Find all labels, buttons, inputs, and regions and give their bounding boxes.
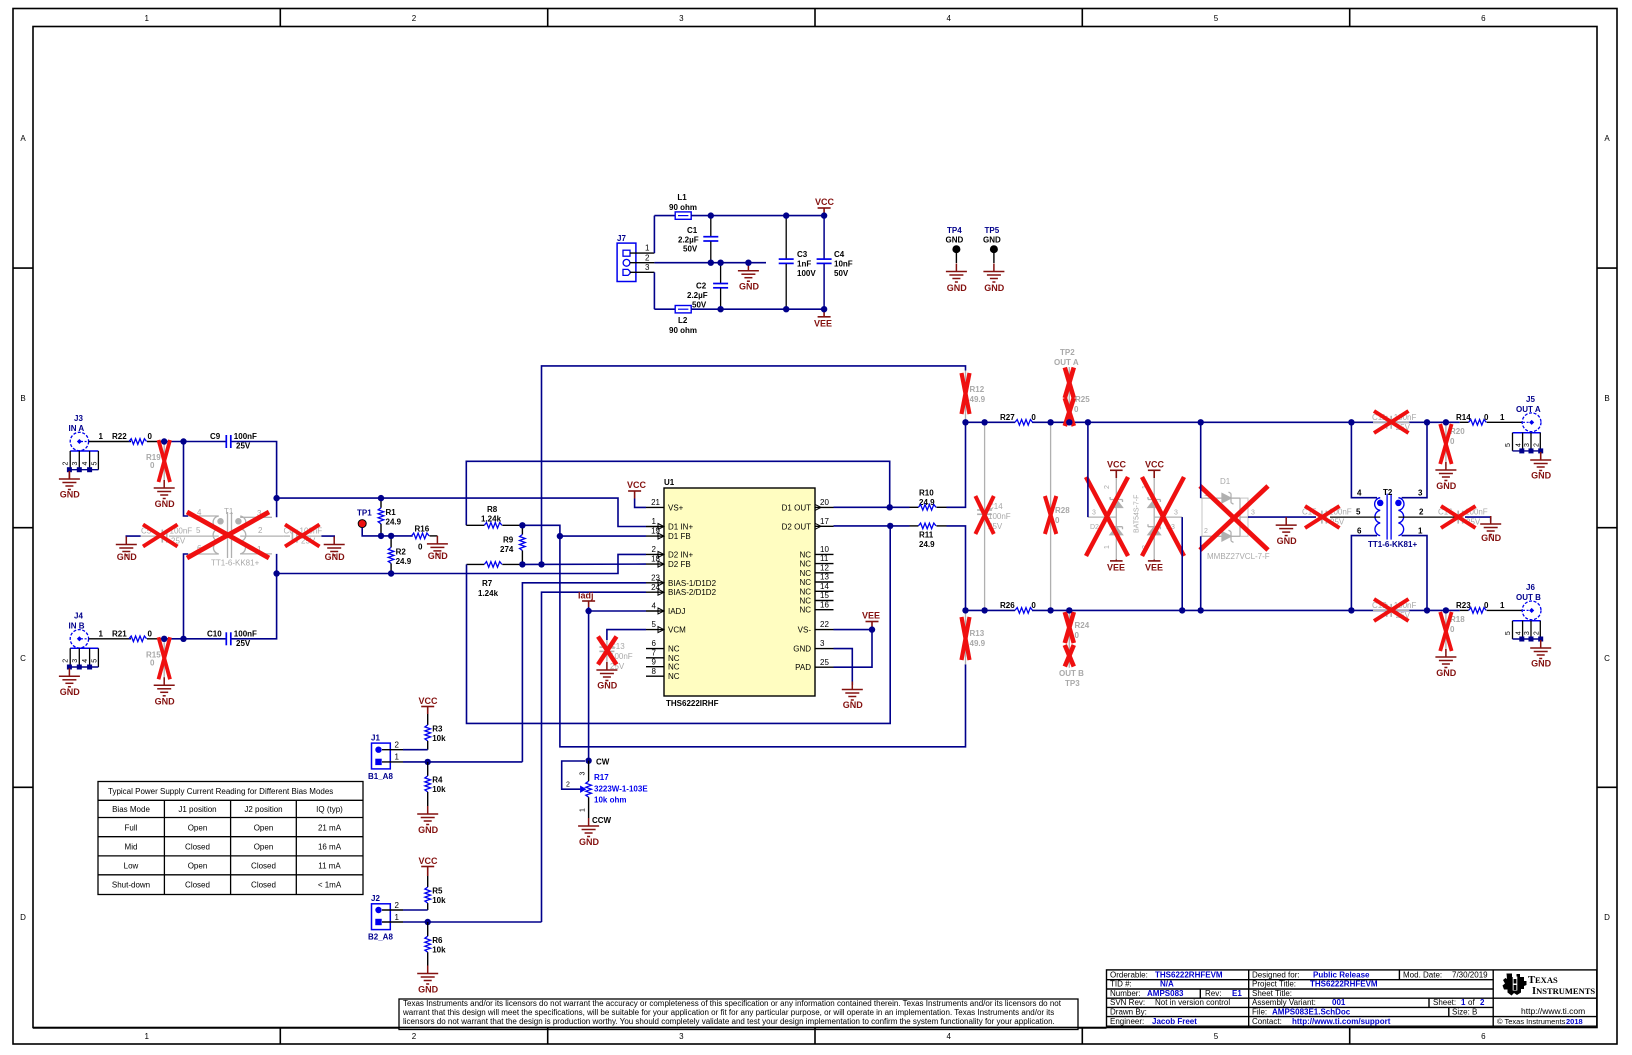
svg-text:R4: R4	[432, 776, 443, 785]
svg-text:21 mA: 21 mA	[318, 824, 342, 833]
wire D1 OUT to R10	[834, 506, 910, 508]
svg-text:D1: D1	[1220, 477, 1231, 486]
resistor R16	[412, 525, 438, 552]
svg-text:3: 3	[679, 14, 684, 23]
svg-text:90 ohm: 90 ohm	[669, 203, 697, 212]
svg-text:Designed for:: Designed for:	[1252, 970, 1300, 979]
svg-text:2: 2	[258, 526, 263, 535]
resistor R23	[1456, 601, 1522, 613]
capacitor C12 (DNP) series on rail B	[1372, 599, 1416, 621]
diode D3 BAT54S (DNP)	[1142, 460, 1184, 573]
svg-text:2.2µF: 2.2µF	[678, 236, 699, 245]
svg-text:1: 1	[1104, 545, 1111, 549]
ground at power mid rail	[738, 263, 760, 292]
capacitor C4	[817, 216, 853, 310]
svg-text:D2 FB: D2 FB	[668, 560, 691, 569]
svg-text:R1: R1	[386, 508, 397, 517]
svg-text:2018: 2018	[1566, 1017, 1583, 1026]
TI logo	[1497, 974, 1595, 1026]
red X over R19	[159, 440, 171, 482]
test point TP2 OUT A (DNP)	[1054, 348, 1079, 398]
svg-text:TP4: TP4	[947, 226, 962, 235]
resistor R2	[388, 536, 411, 574]
svg-text:Project Title:: Project Title:	[1252, 980, 1296, 989]
svg-text:1: 1	[144, 14, 149, 23]
svg-text:J1: J1	[371, 734, 380, 743]
wire R8 node to D1 FB column	[522, 525, 560, 536]
svg-text:IQ (typ): IQ (typ)	[316, 805, 343, 814]
svg-text:GND: GND	[1531, 471, 1552, 481]
resistor R8	[466, 505, 522, 528]
svg-text:5: 5	[1505, 631, 1512, 635]
ground at C13	[596, 662, 617, 691]
svg-text:Shut-down: Shut-down	[112, 881, 150, 890]
svg-text:GND: GND	[155, 499, 176, 509]
resistor R11	[910, 523, 947, 549]
svg-text:NC: NC	[799, 606, 811, 615]
svg-text:3: 3	[1418, 489, 1423, 498]
svg-text:D2 IN+: D2 IN+	[668, 550, 693, 559]
output rail A	[966, 421, 1460, 423]
junction	[557, 533, 563, 539]
svg-text:23: 23	[651, 573, 660, 582]
svg-text:16: 16	[820, 600, 829, 609]
svg-text:0: 0	[1075, 631, 1080, 640]
resistor R12 (DNP)	[962, 371, 986, 423]
svg-text:GND: GND	[946, 236, 964, 245]
resistor R9	[500, 525, 525, 564]
svg-text:24.9: 24.9	[919, 540, 935, 549]
op-amp U1 THS6222IRHF body	[664, 478, 815, 708]
svg-text:14: 14	[820, 582, 829, 591]
svg-text:R17: R17	[594, 773, 609, 782]
junction	[783, 306, 789, 312]
svg-text:VS+: VS+	[668, 503, 684, 512]
svg-text:2: 2	[395, 741, 400, 750]
svg-text:R8: R8	[487, 505, 498, 514]
svg-text:GND: GND	[579, 837, 600, 847]
junction	[425, 759, 431, 765]
svg-text:Open: Open	[254, 843, 274, 852]
VEE at U1	[862, 611, 880, 633]
svg-text:R16: R16	[415, 525, 430, 534]
svg-text:OUT A: OUT A	[1054, 358, 1079, 367]
svg-text:VCC: VCC	[1107, 460, 1127, 470]
red X over R15	[159, 637, 171, 679]
connector J1	[368, 734, 403, 782]
svg-text:IN A: IN A	[69, 424, 85, 433]
svg-text:< 1mA: < 1mA	[318, 881, 342, 890]
ground at D1 pin3	[1276, 517, 1297, 546]
svg-text:warrant that this design will: warrant that this design will meet the s…	[402, 1008, 1054, 1017]
ground at R18	[1435, 649, 1456, 678]
svg-text:PAD: PAD	[795, 663, 811, 672]
resistor R4	[425, 762, 446, 806]
svg-text:5: 5	[196, 526, 201, 535]
ground at J6 shell	[1530, 640, 1551, 669]
svg-text:© Texas Instruments: © Texas Instruments	[1497, 1017, 1566, 1026]
svg-text:VCC: VCC	[419, 696, 439, 706]
resistor R19 (DNP)	[146, 440, 170, 484]
svg-text:R9: R9	[503, 536, 514, 545]
svg-text:R2: R2	[396, 548, 407, 557]
svg-text:TID #:: TID #:	[1110, 980, 1132, 989]
svg-text:0: 0	[1031, 413, 1036, 422]
svg-text:3223W-1-103E: 3223W-1-103E	[594, 785, 648, 794]
junction	[821, 306, 827, 312]
svg-text:5: 5	[1505, 443, 1512, 447]
junction	[745, 260, 751, 266]
ground at C6	[324, 537, 345, 563]
svg-text:7: 7	[652, 648, 657, 657]
ground at R19	[154, 480, 175, 509]
resistor R18 (DNP)	[1440, 610, 1465, 653]
capacitor C16 (DNP) at T2 pin2	[1438, 506, 1488, 528]
ground at C5	[116, 537, 137, 563]
svg-text:9: 9	[652, 657, 657, 666]
junction	[1179, 607, 1185, 613]
capacitor C13 (DNP)	[598, 637, 633, 672]
svg-text:D2 OUT: D2 OUT	[782, 522, 811, 531]
ground at J5 shell	[1530, 452, 1551, 481]
ground at TP5	[983, 264, 1004, 294]
svg-text:Number:: Number:	[1110, 989, 1141, 998]
svg-text:R14: R14	[1456, 413, 1471, 422]
svg-text:NC: NC	[668, 645, 680, 654]
resistor R10	[910, 489, 947, 511]
svg-text:100nF: 100nF	[234, 629, 257, 638]
diode D1 MMBZ27VCL-7-F (DNP)	[1200, 477, 1270, 561]
svg-text:BIAS-2/D1D2: BIAS-2/D1D2	[668, 588, 717, 597]
resistor R20 (DNP)	[1440, 422, 1465, 466]
wire J4 pin1 to R21	[89, 638, 131, 640]
svg-text:4: 4	[652, 602, 657, 611]
title block	[1107, 970, 1597, 1026]
svg-text:C9: C9	[210, 432, 221, 441]
junction	[519, 561, 525, 567]
inductor L2	[669, 306, 697, 336]
ground at C16	[1480, 516, 1501, 543]
svg-text:10k ohm: 10k ohm	[594, 796, 626, 805]
junction	[1066, 607, 1072, 613]
svg-text:2: 2	[1204, 528, 1208, 535]
svg-text:GND: GND	[1436, 481, 1457, 491]
svg-text:4: 4	[82, 462, 89, 466]
svg-text:3: 3	[1524, 443, 1531, 447]
svg-text:0: 0	[1055, 516, 1060, 525]
border row labels	[20, 134, 1610, 922]
svg-text:AMPS083E1.SchDoc: AMPS083E1.SchDoc	[1272, 1008, 1351, 1017]
svg-text:Not in version control: Not in version control	[1155, 998, 1230, 1007]
ground at R15	[154, 677, 175, 706]
svg-text:3: 3	[679, 1032, 684, 1041]
svg-text:Public Release: Public Release	[1313, 970, 1370, 979]
svg-text:B1_A8: B1_A8	[368, 772, 393, 781]
svg-text:IADJ: IADJ	[668, 607, 685, 616]
svg-text:TT1-6-KK81+: TT1-6-KK81+	[1368, 540, 1417, 549]
junction	[1424, 607, 1430, 613]
svg-text:GND: GND	[947, 283, 968, 293]
ground at R6	[417, 966, 438, 995]
capacitor C2	[687, 263, 728, 310]
test point TP4	[946, 226, 964, 263]
wire VS- PAD to VEE	[834, 630, 873, 668]
svg-text:0: 0	[150, 461, 155, 470]
svg-text:Bias Mode: Bias Mode	[112, 805, 150, 814]
svg-text:R25: R25	[1075, 395, 1090, 404]
svg-text:C10: C10	[207, 629, 222, 638]
svg-text:10nF: 10nF	[834, 260, 853, 269]
capacitor C10	[207, 629, 257, 648]
junction	[388, 570, 394, 576]
junction	[1198, 607, 1204, 613]
svg-text:6: 6	[1357, 527, 1362, 536]
svg-text:10k: 10k	[432, 946, 446, 955]
red X over T1	[187, 512, 269, 558]
junction	[962, 607, 968, 613]
svg-text:Iadj: Iadj	[578, 591, 594, 601]
svg-text:25V: 25V	[236, 442, 251, 451]
svg-text:0: 0	[1484, 413, 1489, 422]
svg-text:25V: 25V	[236, 639, 251, 648]
svg-text:T2: T2	[1383, 488, 1393, 497]
wire C16 to ground	[1465, 517, 1491, 521]
svg-text:BAT54S-7-F: BAT54S-7-F	[1133, 495, 1140, 533]
wire rail B to T2 pin1	[1402, 536, 1427, 611]
svg-text:J3: J3	[74, 414, 83, 423]
capacitor C6 (DNP) at T1 pin2	[283, 525, 322, 547]
svg-text:CCW: CCW	[592, 816, 612, 825]
svg-text:0: 0	[150, 658, 155, 667]
svg-text:10k: 10k	[432, 785, 446, 794]
svg-text:21: 21	[651, 498, 660, 507]
wire rail A to D2 pin3	[1087, 422, 1089, 517]
wire T1 pin4 from C9 node	[184, 442, 189, 517]
svg-text:4: 4	[946, 14, 951, 23]
svg-text:GND: GND	[597, 681, 618, 691]
svg-text:TP1: TP1	[357, 509, 372, 518]
svg-text:2: 2	[395, 901, 400, 910]
svg-text:49.9: 49.9	[970, 639, 986, 648]
wire J7 pin3 to L2	[653, 272, 655, 309]
svg-text:Engineer:: Engineer:	[1110, 1017, 1144, 1026]
VCC at R5	[419, 856, 439, 876]
svg-text:6: 6	[652, 639, 657, 648]
junction	[1443, 419, 1449, 425]
svg-text:B2_A8: B2_A8	[368, 933, 393, 942]
U1 right pin stubs	[815, 507, 834, 667]
svg-text:Sheet:: Sheet:	[1433, 998, 1456, 1007]
svg-text:NC: NC	[799, 569, 811, 578]
svg-text:2: 2	[652, 545, 657, 554]
svg-text:NC: NC	[799, 597, 811, 606]
svg-text:Closed: Closed	[185, 881, 210, 890]
resistor R28 (DNP)	[1045, 422, 1070, 610]
svg-text:Orderable:: Orderable:	[1110, 970, 1148, 979]
svg-text:Open: Open	[254, 824, 274, 833]
svg-text:18: 18	[651, 555, 660, 564]
wire D2 feedback loop (R7 left to D2 OUT)	[467, 526, 891, 724]
ground at U1 pin3	[842, 682, 863, 711]
svg-text:0: 0	[1450, 437, 1455, 446]
resistor R14	[1456, 413, 1522, 425]
svg-text:GND: GND	[60, 687, 81, 697]
svg-text:15: 15	[820, 591, 829, 600]
resistor R15 (DNP)	[146, 637, 170, 681]
svg-text:TT1-6-KK81+: TT1-6-KK81+	[211, 559, 260, 568]
resistor R25 (DNP)	[1065, 395, 1090, 426]
wire rail A to D1 pin1	[1200, 422, 1202, 498]
svg-text:J7: J7	[617, 234, 626, 243]
svg-text:Mod. Date:: Mod. Date:	[1403, 970, 1442, 979]
svg-text:MMBZ27VCL-7-F: MMBZ27VCL-7-F	[1207, 552, 1270, 561]
svg-text:4: 4	[946, 1032, 951, 1041]
svg-text:CW: CW	[596, 758, 610, 767]
svg-text:3: 3	[72, 659, 79, 663]
VCC at R3	[419, 696, 439, 714]
svg-text:VCC: VCC	[1145, 460, 1165, 470]
svg-text:TP5: TP5	[985, 226, 1000, 235]
wire BIAS-2 to J2 column	[542, 592, 647, 922]
wire T2 pin2 line	[1398, 516, 1456, 518]
U1 right pin numbers	[820, 498, 829, 667]
resistor R22	[112, 432, 164, 444]
junction	[1443, 607, 1449, 613]
diode D2 BAT54S (DNP)	[1086, 460, 1140, 573]
svg-text:24: 24	[651, 583, 660, 592]
svg-text:TEXAS: TEXAS	[1528, 975, 1558, 986]
svg-text:2: 2	[1480, 998, 1485, 1007]
svg-text:Rev:: Rev:	[1205, 989, 1221, 998]
wire R13 cross-feedback loop	[560, 536, 966, 747]
wire D3 pin3 to rail B	[1181, 517, 1183, 610]
svg-text:1.24k: 1.24k	[478, 589, 499, 598]
mid GND rail wire from J7 pin 2	[654, 262, 766, 264]
wire R11 to rail B	[947, 526, 966, 611]
capacitor C9	[210, 432, 257, 451]
junction	[962, 419, 968, 425]
svg-text:R28: R28	[1055, 506, 1070, 515]
svg-text:1: 1	[144, 1032, 149, 1041]
svg-text:VCC: VCC	[815, 197, 835, 207]
svg-text:1: 1	[395, 913, 400, 922]
junction	[378, 533, 384, 539]
wire R10 to rail A	[947, 422, 966, 507]
junction	[1066, 419, 1072, 425]
svg-text:5: 5	[1214, 14, 1219, 23]
test point TP3 OUT B (DNP)	[1059, 645, 1084, 688]
svg-text:11: 11	[820, 554, 829, 563]
wire rail B to D1 pin2	[1200, 536, 1202, 610]
svg-text:90 ohm: 90 ohm	[669, 326, 697, 335]
svg-text:R7: R7	[482, 579, 493, 588]
svg-text:24.9: 24.9	[396, 557, 412, 566]
junction	[585, 608, 591, 614]
svg-text:A: A	[1604, 134, 1610, 143]
svg-text:6: 6	[1481, 14, 1486, 23]
output rail B	[966, 609, 1460, 611]
svg-text:B: B	[1604, 394, 1609, 403]
svg-text:R6: R6	[432, 936, 443, 945]
svg-text:GND: GND	[428, 551, 449, 561]
wire BIAS-1 to J1 column	[522, 583, 646, 762]
svg-text:R24: R24	[1075, 621, 1090, 630]
svg-text:C3: C3	[797, 250, 808, 259]
svg-text:2: 2	[63, 659, 70, 663]
svg-text:2: 2	[63, 462, 70, 466]
svg-text:Open: Open	[188, 824, 208, 833]
wire VCM to C13	[607, 630, 646, 640]
wire J7 pin1 to L1	[653, 216, 655, 254]
wire D1 FB to U1 pin19	[560, 535, 646, 537]
svg-text:INSTRUMENTS: INSTRUMENTS	[1532, 986, 1595, 997]
junction	[887, 523, 893, 529]
ground at J4 shell	[59, 668, 80, 697]
svg-text:Closed: Closed	[251, 881, 276, 890]
connector J6 OUT B	[1505, 583, 1543, 642]
svg-text:3: 3	[1174, 510, 1178, 517]
junction	[869, 626, 875, 632]
ground at R16	[427, 536, 448, 561]
svg-text:4: 4	[82, 659, 89, 663]
wire D1 feedback loop (R8 left to D1 OUT)	[466, 461, 889, 525]
wire J2 pin2 to R5	[403, 909, 428, 911]
svg-text:E1: E1	[1232, 989, 1242, 998]
svg-text:VEE: VEE	[814, 319, 832, 329]
wire TP1 row to R16	[381, 535, 413, 537]
svg-text:J6: J6	[1526, 583, 1535, 592]
junction	[1348, 607, 1354, 613]
wire C5 to ground	[126, 536, 140, 537]
svg-text:5: 5	[1356, 508, 1361, 517]
svg-text:2: 2	[412, 14, 417, 23]
U1 left pin stubs	[646, 507, 664, 676]
wire J2 pin1 row to BIAS-2 column	[403, 921, 542, 923]
svg-text:OUT A: OUT A	[1516, 405, 1541, 414]
capacitor C14 (DNP)	[975, 422, 1010, 610]
svg-text:1: 1	[99, 432, 104, 441]
VEE rail wire	[691, 308, 824, 310]
input rail B to U1 pin2	[277, 554, 646, 573]
svg-text:VCM: VCM	[668, 626, 686, 635]
svg-text:3: 3	[580, 772, 587, 776]
svg-text:1: 1	[1461, 998, 1466, 1007]
wire C10 to T1 pin1 column	[232, 554, 277, 639]
svg-text:10k: 10k	[432, 734, 446, 743]
resistor R3	[425, 714, 446, 750]
svg-text:GND: GND	[1277, 536, 1298, 546]
svg-text:R11: R11	[919, 531, 934, 540]
svg-text:licensors do not warrant that: licensors do not warrant that the design…	[403, 1017, 1055, 1026]
junction	[585, 758, 591, 764]
svg-text:Closed: Closed	[251, 862, 276, 871]
capacitor C15 (DNP) at T2 pin5	[1302, 506, 1352, 528]
svg-text:R27: R27	[1000, 413, 1015, 422]
junction	[1198, 419, 1204, 425]
ground at R20	[1435, 462, 1456, 491]
svg-text:4: 4	[1515, 443, 1522, 447]
junction	[378, 495, 384, 501]
svg-text:2: 2	[566, 782, 570, 789]
resistor R27	[1000, 413, 1036, 427]
svg-text:GND: GND	[739, 282, 760, 292]
resistor R6	[425, 922, 446, 966]
svg-text:C2: C2	[696, 282, 707, 291]
svg-text:R3: R3	[432, 725, 443, 734]
svg-text:Typical Power Supply Current R: Typical Power Supply Current Reading for…	[108, 787, 333, 796]
svg-text:Open: Open	[188, 862, 208, 871]
resistor R26	[1000, 601, 1036, 615]
